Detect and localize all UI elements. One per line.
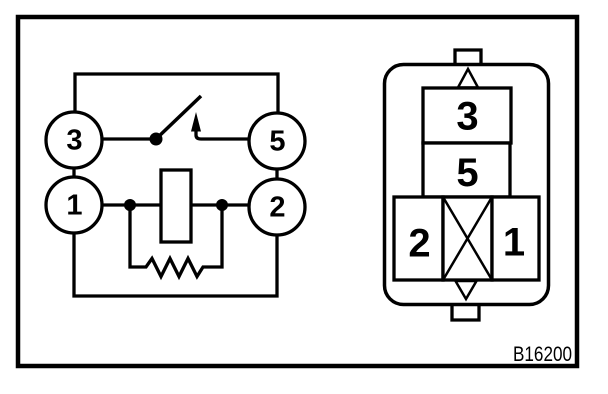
switch SW blade bbox=[156, 96, 201, 139]
wire stub terminal 3 to terminal 1 bbox=[72, 168, 75, 177]
orientation arrow up bbox=[458, 69, 478, 88]
cavity 5 bbox=[423, 143, 510, 197]
svg-text:3: 3 bbox=[66, 125, 82, 157]
svg-text:2: 2 bbox=[408, 222, 430, 266]
svg-text:5: 5 bbox=[456, 151, 478, 195]
wire switch to terminal 5 bbox=[201, 137, 249, 140]
junction dot right (node between coil and terminal 2) bbox=[216, 199, 228, 211]
connector tab bottom bbox=[452, 305, 479, 320]
svg-text:1: 1 bbox=[66, 190, 82, 222]
terminal 3 bbox=[46, 112, 102, 168]
svg-text:5: 5 bbox=[269, 126, 285, 158]
cavity 1 bbox=[492, 197, 539, 280]
orientation arrow down bbox=[456, 281, 477, 299]
junction dot switch pivot bbox=[150, 133, 163, 146]
cavity 2 bbox=[394, 197, 443, 280]
terminal 1 bbox=[46, 177, 102, 233]
wire bottom (terminal 1 to terminal 2) bbox=[74, 233, 277, 296]
resistor (parallel with coil) bbox=[130, 205, 222, 277]
wire stub terminal 5 to terminal 2 bbox=[275, 169, 278, 179]
wire terminal 3 to switch pivot bbox=[102, 137, 152, 140]
switch actuation arrow bbox=[191, 112, 201, 139]
wire top (terminal 3 to terminal 5 via switch frame) bbox=[75, 74, 278, 113]
relay coil bbox=[161, 170, 191, 242]
keyway X box bbox=[443, 197, 492, 280]
cavity 3 bbox=[423, 88, 511, 143]
terminal 2 bbox=[249, 179, 305, 235]
junction dot left (node between terminal 1 and coil) bbox=[124, 199, 136, 211]
svg-text:3: 3 bbox=[456, 95, 478, 139]
terminal 5 bbox=[249, 113, 305, 169]
wire terminal 1 to terminal 2 (through coil) bbox=[102, 203, 249, 206]
connector body bbox=[385, 65, 549, 305]
svg-text:1: 1 bbox=[503, 221, 525, 265]
connector tab top bbox=[455, 50, 481, 64]
svg-text:2: 2 bbox=[269, 192, 285, 224]
svg-text:B16200: B16200 bbox=[513, 343, 572, 366]
